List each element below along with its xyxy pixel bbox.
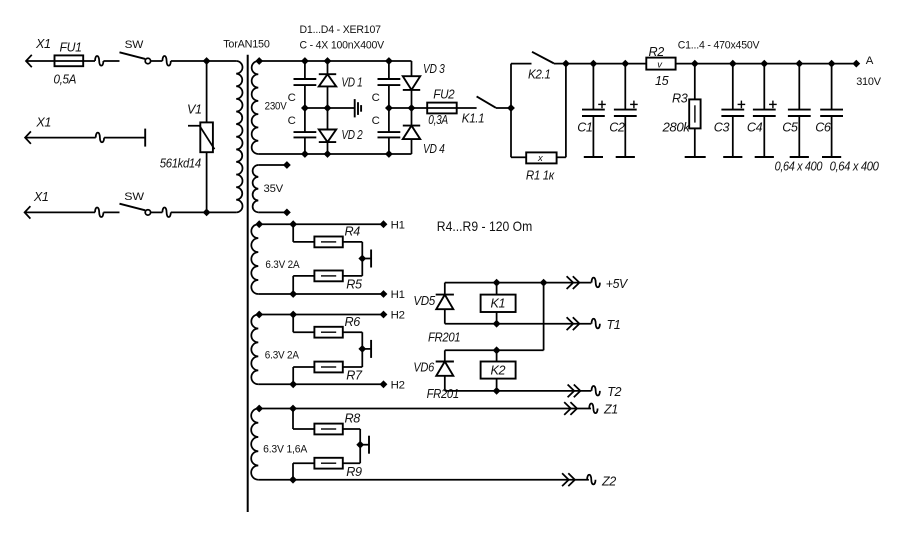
node 6.3V 2A top branch — [289, 311, 297, 319]
node cap column2 bottom — [385, 150, 393, 158]
svg-text:K2.1: K2.1 — [528, 68, 551, 82]
wire after SW bottom — [151, 211, 163, 213]
svg-text:C: C — [288, 115, 296, 127]
varistor V1 diagonal stroke — [188, 126, 215, 150]
node bottom-left junction — [203, 209, 211, 217]
svg-text:R8: R8 — [345, 412, 361, 426]
svg-text:C: C — [288, 92, 296, 104]
svg-text:C6: C6 — [815, 121, 831, 135]
terminal H1 bottom — [380, 290, 388, 298]
svg-text:VD6: VD6 — [413, 361, 434, 375]
fuse FU1 — [55, 55, 84, 66]
terminal H2 top — [380, 311, 388, 319]
diode VD2 — [327, 108, 329, 130]
terminal 35V top — [283, 161, 291, 169]
wire R5 right stub — [343, 275, 363, 277]
svg-text:Z1: Z1 — [603, 403, 618, 417]
wire K1 top stub — [496, 283, 498, 295]
chassis bar 6.3V 2A — [362, 258, 371, 260]
wire 6.3V 2A bottom lead — [258, 383, 383, 385]
wire to transformer primary top — [171, 60, 236, 62]
node winding 6.3V 1,6A top-start — [255, 405, 263, 413]
connector Z1 chevrons — [564, 402, 571, 415]
capacitor C lower-right lead — [388, 108, 390, 132]
wire K2.1 stub — [511, 63, 532, 65]
node cap column1 mid — [301, 104, 309, 112]
resistor R3 — [694, 64, 696, 100]
capacitor C upper-left plates — [294, 78, 317, 80]
svg-text:X1: X1 — [35, 116, 51, 130]
svg-text:FR201: FR201 — [427, 387, 459, 401]
switch SW top contact circle — [145, 58, 150, 63]
svg-text:FR201: FR201 — [428, 331, 460, 345]
svg-text:C - 4X 100nX400V: C - 4X 100nX400V — [300, 39, 385, 51]
svg-text:0,3A: 0,3A — [428, 113, 448, 127]
svg-text:561kd14: 561kd14 — [160, 157, 201, 171]
svg-text:R1 1к: R1 1к — [526, 169, 555, 183]
svg-text:FU2: FU2 — [433, 87, 454, 101]
terminal X1 bottom arrow — [25, 206, 31, 218]
svg-text:C1: C1 — [577, 121, 592, 135]
node R3 top — [691, 60, 699, 68]
wire R9 left branch — [293, 462, 314, 464]
wire R9 right stub — [343, 462, 360, 464]
R3 end bar — [685, 156, 706, 158]
svg-text:C4: C4 — [747, 121, 763, 135]
node C5 top — [795, 60, 803, 68]
wire +5V rail — [445, 282, 592, 284]
node 6.3V 2A center tap — [358, 255, 366, 263]
resistor R2 — [646, 58, 675, 70]
wire R8 to center tap — [343, 428, 360, 430]
svg-text:FU1: FU1 — [60, 40, 82, 54]
terminal X1 middle arrow — [25, 131, 31, 143]
node cap column1 bottom — [301, 150, 309, 158]
wire T2 rail — [445, 390, 592, 392]
node 6.3V 2A center tap — [358, 345, 366, 353]
node secondary top — [255, 57, 263, 65]
capacitor C1 node — [590, 60, 598, 68]
resistor R1 — [526, 152, 556, 163]
wire to transformer primary bottom — [171, 211, 236, 213]
svg-text:C: C — [372, 115, 380, 127]
relay coil K2 — [481, 362, 516, 379]
wire jog Z2 — [587, 475, 595, 485]
node cap column2 mid — [385, 104, 393, 112]
transformer secondary 6.3V 1,6A winding — [251, 409, 258, 480]
svg-text:280k: 280k — [661, 121, 690, 135]
svg-text:R7: R7 — [346, 369, 363, 383]
node C3 top — [729, 60, 737, 68]
svg-text:K1.1: K1.1 — [462, 111, 485, 125]
diode VD1 — [327, 61, 329, 74]
capacitor C5 — [798, 64, 800, 110]
svg-text:D1...D4 - XER107: D1...D4 - XER107 — [300, 24, 381, 36]
node winding 6.3V 2A top-start — [255, 220, 263, 228]
resistor R4 — [314, 237, 342, 248]
svg-text:6.3V 1,6A: 6.3V 1,6A — [263, 444, 308, 456]
wire +5V down to K2 row — [543, 283, 545, 351]
wire 6.3V 2A top lead — [258, 223, 383, 225]
terminal X1 top arrow — [26, 55, 32, 67]
switch SW top blade — [120, 52, 146, 59]
svg-text:6.3V 2A: 6.3V 2A — [265, 350, 300, 362]
wire varistor V1 upper lead — [206, 61, 208, 122]
terminal H2 bottom — [380, 380, 388, 388]
capacitor C lower-left plates — [294, 131, 317, 133]
capacitor C upper-left lower lead — [304, 85, 306, 108]
node diode column top — [324, 57, 332, 65]
capacitor C6 — [831, 64, 833, 110]
node 6.3V 1,6A bottom branch — [289, 476, 297, 484]
svg-text:H2: H2 — [391, 380, 405, 392]
wire 6.3V 2A top lead — [258, 314, 383, 316]
connector T1 chevrons — [567, 317, 574, 330]
wire junction vertical branch — [510, 64, 512, 158]
wire varistor V1 lower lead — [206, 152, 208, 212]
node +5V to K2 branch — [540, 279, 548, 287]
svg-text:C2: C2 — [609, 121, 625, 135]
wire X1 top row incoming — [26, 60, 95, 62]
node cap column2 top — [385, 57, 393, 65]
capacitor C upper-right plates — [378, 78, 401, 80]
node 6.3V 1,6A top branch — [289, 405, 297, 413]
node K2 coil top — [493, 346, 501, 354]
resistor R7 — [314, 362, 342, 373]
terminal H1 top — [380, 220, 388, 228]
wire jog Z1 — [589, 404, 597, 414]
wire bridge mid rail right to FU2 — [389, 107, 477, 109]
svg-text:SW: SW — [125, 39, 144, 51]
wire after K1.1 — [496, 107, 511, 109]
fuse FU2 — [427, 103, 457, 114]
wire K2 top stub — [496, 350, 498, 361]
svg-text:R5: R5 — [346, 278, 363, 292]
diode VD6 — [444, 350, 446, 361]
wire R4 to center tap — [343, 241, 363, 243]
svg-text:VD5: VD5 — [413, 294, 436, 308]
svg-text:35V: 35V — [264, 183, 284, 195]
wire jog before bottom node — [162, 207, 170, 217]
transformer primary winding — [236, 61, 242, 212]
svg-text:0,64 x 400: 0,64 x 400 — [775, 159, 823, 173]
wire X1 bottom row incoming — [25, 211, 95, 213]
capacitor C2 — [624, 64, 626, 110]
resistor R8 — [314, 424, 342, 435]
svg-text:230V: 230V — [265, 101, 288, 113]
capacitor C3 — [732, 64, 734, 110]
wire K2 bottom stub — [496, 379, 498, 391]
chassis bar 6.3V 2A — [362, 348, 371, 350]
wire Z2 output — [258, 479, 589, 481]
svg-text:X1: X1 — [33, 190, 49, 204]
svg-text:C: C — [372, 92, 380, 104]
node 6.3V 2A top branch — [289, 220, 297, 228]
transformer secondary 6.3V 2A winding — [251, 224, 258, 294]
node K2 coil bottom — [493, 387, 501, 395]
resistor R9 — [314, 458, 342, 469]
svg-text:R9: R9 — [346, 465, 362, 479]
wire R5 left branch — [293, 275, 314, 277]
svg-text:6.3V 2A: 6.3V 2A — [265, 259, 300, 271]
node K1.1 output junction — [507, 104, 515, 112]
diode VD5 — [444, 283, 446, 295]
wire K2 top rail — [445, 349, 544, 351]
connector Z2 chevrons — [562, 473, 569, 486]
node K1 coil top — [493, 279, 501, 287]
svg-text:K1: K1 — [491, 297, 506, 311]
svg-text:C1...4 - 470x450V: C1...4 - 470x450V — [678, 40, 760, 52]
wire R6 to center tap — [343, 331, 363, 333]
wire middle row to end bar — [104, 137, 145, 139]
svg-text:H2: H2 — [391, 310, 405, 322]
node winding 6.3V 2A top-start — [255, 311, 263, 319]
capacitor C upper-right lower lead — [388, 85, 390, 108]
capacitor C lower-left lead — [304, 108, 306, 132]
svg-text:R2: R2 — [649, 45, 665, 59]
wire R1 branch vertical — [565, 64, 567, 158]
varistor V1 body — [200, 122, 213, 152]
capacitor C4 — [763, 64, 765, 110]
svg-text:VD 4: VD 4 — [423, 142, 445, 156]
node diode bridge output mid — [408, 104, 416, 112]
node C4 top — [760, 60, 768, 68]
node 6.3V 2A bottom branch — [289, 290, 297, 298]
svg-text:VD 3: VD 3 — [423, 62, 445, 76]
node DC rail start — [562, 60, 570, 68]
capacitor C2 node — [621, 60, 629, 68]
node top-left junction — [203, 57, 211, 65]
wire DC rail right of R2 — [676, 63, 857, 65]
wire R1 stub left — [511, 156, 526, 158]
svg-text:15: 15 — [655, 74, 670, 88]
wire R8 left branch — [292, 409, 294, 430]
resistor R5 — [314, 271, 342, 282]
wire after K2.1 — [554, 63, 566, 65]
relay contact K1.1 blade — [477, 96, 496, 107]
svg-text:Z2: Z2 — [601, 474, 616, 488]
wire after SW top — [151, 60, 163, 62]
wire bridge bottom rail — [258, 153, 411, 155]
wire 35V bottom lead — [258, 211, 287, 213]
wire DC rail left of R2 — [566, 63, 646, 65]
wire T1 rail — [445, 323, 592, 325]
R3 lower lead — [694, 128, 696, 157]
svg-text:310V: 310V — [856, 76, 881, 88]
connector T2 chevrons — [568, 385, 575, 398]
node cap column1 top — [301, 57, 309, 65]
svg-text:0,5A: 0,5A — [54, 72, 77, 86]
terminal A — [852, 60, 860, 68]
svg-text:TorAN150: TorAN150 — [223, 38, 270, 50]
wire jog middle row — [96, 133, 104, 143]
svg-text:R6: R6 — [345, 315, 361, 329]
capacitor C lower-right plates — [378, 131, 401, 133]
wire R7 right stub — [343, 366, 363, 368]
svg-text:SW: SW — [124, 191, 144, 203]
transformer secondary 6.3V 2A winding — [251, 315, 258, 385]
wire jog after FU1 — [95, 56, 103, 66]
wire Z1 output — [258, 408, 591, 410]
capacitor C1 — [592, 64, 594, 110]
svg-text:C5: C5 — [782, 121, 799, 135]
svg-text:VD 2: VD 2 — [341, 128, 362, 142]
wire bridge mid rail left — [305, 107, 354, 109]
wire to switch SW bottom — [103, 211, 119, 213]
R3 power mark — [694, 105, 696, 122]
capacitor C upper-left lead — [304, 61, 306, 79]
svg-text:V1: V1 — [187, 103, 202, 117]
diode VD4 — [411, 108, 413, 126]
svg-text:0,64 x 400: 0,64 x 400 — [830, 159, 879, 173]
svg-text:R4...R9 - 120 Om: R4...R9 - 120 Om — [437, 219, 533, 234]
wire to switch SW top — [103, 60, 119, 62]
capacitor C lower-right lower lead — [388, 137, 390, 154]
terminal 35V bottom — [283, 209, 291, 217]
wire jog T2 — [592, 386, 600, 396]
svg-text:C3: C3 — [714, 121, 730, 135]
ground symbol — [355, 99, 361, 117]
svg-text:X1: X1 — [35, 37, 51, 51]
wire jog bottom row — [95, 207, 103, 217]
svg-text:T2: T2 — [607, 385, 621, 399]
wire jog +5V — [592, 278, 600, 288]
wire K1 bottom stub — [496, 312, 498, 324]
diode VD3 — [411, 61, 413, 76]
relay coil K1 — [481, 295, 516, 312]
chassis bar 6.3V 1,6A — [360, 444, 369, 446]
svg-text:H1: H1 — [391, 219, 405, 231]
connector +5V chevrons — [567, 276, 574, 289]
wire R1 stub right — [557, 156, 566, 158]
wire jog T1 — [592, 319, 600, 329]
svg-text:+5V: +5V — [606, 277, 629, 291]
node K1 coil bottom — [493, 320, 501, 328]
node 6.3V 2A bottom branch — [289, 380, 297, 388]
svg-text:H1: H1 — [391, 289, 405, 301]
wire R6 left branch — [292, 315, 294, 333]
wire bridge top rail — [258, 60, 411, 62]
transformer core — [247, 55, 249, 512]
relay contact K2.1 blade — [532, 52, 554, 64]
switch SW bottom contact circle — [145, 210, 150, 215]
wire 35V top lead — [258, 164, 287, 166]
transformer secondary 230V winding — [252, 61, 259, 154]
node 6.3V 1,6A center tap — [356, 441, 364, 449]
transformer secondary 35V winding — [253, 165, 259, 212]
svg-text:A: A — [866, 55, 874, 67]
svg-text:R3: R3 — [672, 91, 688, 105]
switch SW bottom blade — [120, 204, 146, 211]
capacitor C lower-left lower lead — [304, 137, 306, 154]
node diode column mid — [324, 104, 332, 112]
wire 6.3V 2A bottom lead — [258, 293, 383, 295]
wire R4 left branch — [292, 224, 294, 242]
svg-text:VD 1: VD 1 — [341, 76, 362, 90]
wire X1 middle row — [25, 137, 96, 139]
resistor R6 — [314, 327, 342, 338]
node diode column bottom — [324, 150, 332, 158]
wire jog before node — [162, 56, 170, 66]
svg-text:K2: K2 — [491, 363, 506, 377]
capacitor C upper-right lead — [388, 61, 390, 79]
svg-text:T1: T1 — [607, 318, 621, 332]
wire R7 left branch — [293, 366, 314, 368]
end bar middle X1 wire — [144, 129, 146, 147]
node C6 top — [828, 60, 836, 68]
svg-text:R4: R4 — [345, 225, 361, 239]
